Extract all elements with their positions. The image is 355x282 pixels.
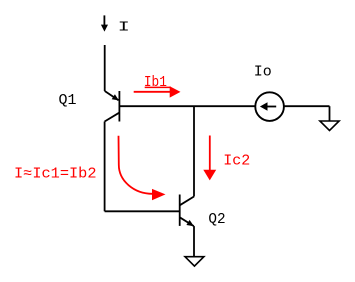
wire from I arrow to Q1 emitter [104, 45, 106, 91]
current arrow Ic2 (red, downward) [203, 136, 216, 181]
transistor Q1 (PNP) [105, 91, 120, 122]
ground (right) [320, 121, 339, 131]
svg-text:Ic2: Ic2 [223, 153, 250, 170]
current source I1 (Io) [255, 92, 284, 121]
ground (bottom, under Q2) [185, 257, 204, 266]
current annotation arrow I (top) [101, 15, 108, 31]
wire Q1 collector down left side [104, 122, 106, 212]
label Ib1 (red, underlined) [144, 74, 171, 91]
wire Q2 collector to node [193, 106, 195, 196]
svg-text:Ib1: Ib1 [144, 74, 167, 91]
wire Q2 emitter to ground [193, 226, 195, 257]
svg-text:I≈Ic1=Ib2: I≈Ic1=Ib2 [14, 165, 97, 182]
current arrow Ic1 (red, curved) [119, 136, 166, 200]
svg-text:Q1: Q1 [59, 92, 77, 109]
transistor Q2 (NPN) [180, 195, 194, 227]
wire Q1 base to current source (node at y=106) [119, 105, 255, 107]
svg-text:I: I [118, 20, 130, 35]
svg-text:Q2: Q2 [208, 211, 225, 228]
svg-text:Io: Io [254, 63, 272, 80]
current arrow Ib1 (red, rightward) [134, 86, 181, 97]
wire current source to right ground [285, 106, 330, 121]
wire bottom to Q2 base [105, 210, 180, 212]
